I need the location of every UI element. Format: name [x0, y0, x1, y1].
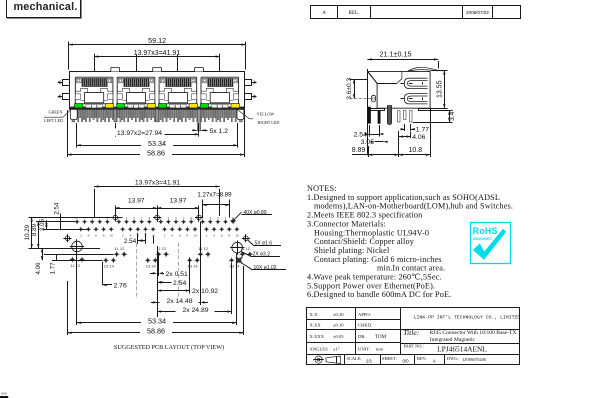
svg-text:8: 8: [187, 234, 189, 238]
svg-text:53.34: 53.34: [148, 317, 166, 326]
svg-text:LPJ46514AENL: LPJ46514AENL: [437, 344, 487, 353]
svg-text:2.54: 2.54: [124, 238, 137, 245]
svg-text:APPO:: APPO:: [358, 312, 371, 317]
svg-text:1.77: 1.77: [50, 262, 57, 275]
svg-text:2.54: 2.54: [173, 280, 186, 287]
svg-text:4: 4: [213, 234, 215, 238]
svg-text:±1°: ±1°: [333, 346, 340, 351]
svg-text:LPJ06070208: LPJ06070208: [463, 357, 486, 362]
svg-text:8: 8: [228, 234, 230, 238]
svg-text:10.29: 10.29: [24, 224, 31, 240]
svg-text:9: 9: [148, 216, 150, 220]
svg-text:58.86: 58.86: [147, 148, 165, 157]
svg-text:13.97x3=41.91: 13.97x3=41.91: [135, 179, 180, 186]
svg-text:4: 4: [88, 234, 90, 238]
svg-text:13 14: 13 14: [104, 264, 115, 269]
svg-text:min.In contact area.: min.In contact area.: [377, 264, 445, 273]
svg-text:7: 7: [225, 216, 227, 220]
svg-text:DR:: DR:: [358, 334, 366, 339]
svg-text:11 12: 11 12: [115, 246, 125, 251]
svg-text:GREEN: GREEN: [49, 110, 63, 115]
svg-text:RoHS: RoHS: [473, 226, 498, 236]
svg-text:Integrated Magnetic: Integrated Magnetic: [430, 337, 476, 343]
svg-text:11 12: 11 12: [157, 246, 167, 251]
svg-text:4.06: 4.06: [35, 262, 42, 275]
svg-text:Contact/Shield: Copper alloy: Contact/Shield: Copper alloy: [314, 237, 415, 246]
svg-text:13.55: 13.55: [436, 80, 443, 98]
svg-text:13.97: 13.97: [128, 198, 145, 205]
svg-text:3.Connector Materials:: 3.Connector Materials:: [307, 219, 386, 228]
svg-text:CHKD:: CHKD:: [358, 323, 372, 328]
svg-text:3: 3: [209, 216, 211, 220]
svg-text:10: 10: [193, 234, 197, 238]
svg-text:DWG:: DWG:: [447, 356, 459, 361]
svg-text:±0.05: ±0.05: [333, 334, 344, 339]
svg-text:6: 6: [95, 234, 97, 238]
svg-text:Housing:Thermoplastic UL94V-0: Housing:Thermoplastic UL94V-0: [314, 228, 429, 237]
svg-text:SCALE:: SCALE:: [347, 356, 362, 361]
svg-text:SUGGESTED PCB LAYOUT (TOP VIEW: SUGGESTED PCB LAYOUT (TOP VIEW): [114, 344, 224, 351]
svg-text:2: 2: [164, 234, 166, 238]
svg-text:13.97x3=41.91: 13.97x3=41.91: [134, 50, 181, 57]
svg-text:4: 4: [171, 234, 173, 238]
svg-text:2x 24.89: 2x 24.89: [182, 307, 208, 314]
svg-text:2.54: 2.54: [354, 131, 367, 138]
svg-text:21.1±0.15: 21.1±0.15: [380, 50, 412, 59]
svg-text:7: 7: [183, 216, 185, 220]
svg-text:modems),LAN-on-Motherboard(LOM: modems),LAN-on-Motherboard(LOM),hub and …: [314, 202, 513, 211]
svg-text:3: 3: [126, 216, 128, 220]
svg-text:3.05: 3.05: [39, 218, 46, 231]
svg-text:YELLOW: YELLOW: [257, 112, 275, 117]
svg-text:RJ45 Connector With 10/100 Bas: RJ45 Connector With 10/100 Base-TX: [430, 330, 517, 336]
svg-text:2.76: 2.76: [114, 282, 127, 289]
svg-text:mm: mm: [376, 346, 384, 351]
svg-text:2: 2: [80, 234, 82, 238]
svg-text:REL.: REL.: [349, 11, 360, 16]
svg-text:6.Designed to handle 600mA DC: 6.Designed to handle 600mA DC for PoE.: [307, 290, 451, 299]
svg-text:11 12: 11 12: [240, 246, 250, 251]
svg-text:X:XX: X:XX: [310, 323, 322, 328]
svg-text:2/1: 2/1: [366, 358, 373, 363]
svg-text:2.54: 2.54: [54, 202, 61, 215]
svg-text:±0.10: ±0.10: [333, 323, 344, 328]
svg-text:5.Support Power over Ethernet(: 5.Support Power over Ethernet(PoE).: [307, 281, 435, 290]
svg-text:8.89: 8.89: [31, 223, 38, 236]
svg-text:±0.20: ±0.20: [333, 312, 344, 317]
svg-text:5: 5: [175, 216, 177, 220]
svg-text:mechanical.: mechanical.: [14, 1, 78, 13]
svg-text:X:X: X:X: [310, 312, 319, 317]
svg-text:5: 5: [217, 216, 219, 220]
svg-text:TOM: TOM: [375, 335, 387, 340]
svg-text:1.77: 1.77: [416, 127, 429, 134]
svg-text:8: 8: [103, 234, 105, 238]
svg-text:ANGLES: ANGLES: [310, 346, 329, 351]
svg-text:0/0: 0/0: [403, 358, 410, 363]
svg-text:58.86: 58.86: [147, 327, 165, 336]
svg-text:5x 1.2: 5x 1.2: [210, 128, 229, 135]
svg-text:10.8: 10.8: [408, 147, 422, 154]
svg-text:3.4: 3.4: [449, 111, 456, 120]
svg-text:REV:: REV:: [417, 356, 427, 361]
svg-text:SHEET:: SHEET:: [382, 356, 397, 361]
svg-text:6: 6: [179, 234, 181, 238]
svg-text:Shield plating: Nickel: Shield plating: Nickel: [314, 246, 390, 255]
svg-text:2x 14.48: 2x 14.48: [166, 298, 192, 305]
svg-text:3: 3: [168, 216, 170, 220]
svg-text:UNIT:: UNIT:: [358, 346, 370, 351]
svg-text:Contact plating: Gold 6 micro-: Contact plating: Gold 6 micro-inches: [314, 255, 442, 264]
svg-text:2x 10.92: 2x 10.92: [192, 288, 218, 295]
svg-text:Title:: Title:: [403, 328, 419, 337]
svg-text:10: 10: [110, 234, 114, 238]
svg-text:8.89: 8.89: [352, 147, 366, 154]
svg-text:53.34: 53.34: [148, 139, 166, 148]
svg-text:11 12: 11 12: [71, 263, 81, 268]
svg-text:A: A: [322, 11, 326, 16]
svg-text:2x 0.51: 2x 0.51: [166, 271, 189, 278]
svg-text:3.6±0.3: 3.6±0.3: [346, 77, 353, 99]
svg-text:4.06: 4.06: [412, 134, 425, 141]
svg-text:5: 5: [133, 216, 135, 220]
svg-text:2.Meets IEEE 802.3 specificati: 2.Meets IEEE 802.3 specification: [307, 211, 422, 220]
svg-text:LINK-PP INT’L TECHNOLOGY CO.,: LINK-PP INT’L TECHNOLOGY CO., LIMITED: [414, 315, 521, 321]
svg-text:X:XXX: X:XXX: [310, 334, 325, 339]
svg-text:59.12: 59.12: [148, 36, 166, 45]
svg-text:9: 9: [190, 216, 192, 220]
svg-text:2: 2: [206, 234, 208, 238]
svg-text:11 12: 11 12: [198, 246, 208, 251]
svg-text:7: 7: [141, 216, 143, 220]
svg-text:LEFT LED: LEFT LED: [44, 118, 63, 123]
svg-text:1.27x7=8.89: 1.27x7=8.89: [197, 191, 232, 198]
svg-text:13 14: 13 14: [146, 264, 157, 269]
svg-text:2002/95/EC: 2002/95/EC: [473, 237, 492, 241]
svg-text:6: 6: [221, 234, 223, 238]
svg-text:13.97x2=27.94: 13.97x2=27.94: [117, 130, 162, 137]
svg-text:13.97: 13.97: [170, 198, 187, 205]
svg-text:NOTES:: NOTES:: [307, 184, 337, 193]
svg-text:1.Designed to support applicat: 1.Designed to support application,such a…: [307, 193, 500, 202]
svg-text:2008/07/02: 2008/07/02: [466, 10, 489, 15]
svg-text:RIGHT LED: RIGHT LED: [258, 120, 280, 125]
svg-text:PART NO.:: PART NO.:: [404, 343, 424, 348]
svg-text:4.Wave peak temperature: 260℃,: 4.Wave peak temperature: 260℃,5Sec.: [307, 273, 442, 282]
svg-text:10: 10: [235, 234, 239, 238]
